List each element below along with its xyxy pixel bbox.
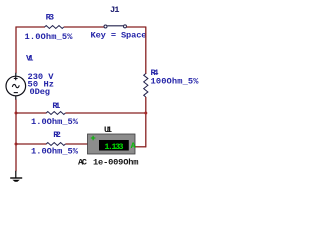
svg-text:1.0Ohm_5%: 1.0Ohm_5% xyxy=(31,117,79,127)
junction node left R1 xyxy=(15,112,18,115)
svg-text:A: A xyxy=(131,142,136,151)
junction node left R2 xyxy=(15,143,18,146)
label U1 xyxy=(104,125,112,135)
label V1 xyxy=(26,53,34,63)
svg-text:Key = Space: Key = Space xyxy=(91,31,147,41)
label J1 xyxy=(110,5,120,15)
resistor R1 xyxy=(46,112,65,115)
label Key = Space xyxy=(91,31,147,41)
svg-text:R3: R3 xyxy=(46,12,55,22)
wire meter to right vertical xyxy=(135,146,146,148)
svg-text:V1: V1 xyxy=(26,53,34,63)
label R1 xyxy=(52,101,60,111)
label AC xyxy=(78,157,87,167)
label 1e-009Ohm xyxy=(93,157,139,167)
wire R2 to meter xyxy=(65,143,88,145)
svg-text:R2: R2 xyxy=(53,130,61,140)
source V1 xyxy=(6,73,26,100)
wire J1 to top-right corner xyxy=(127,26,146,28)
svg-text:100Ohm_5%: 100Ohm_5% xyxy=(151,77,200,87)
ammeter U1 xyxy=(88,134,136,154)
wire R3 to J1 xyxy=(64,26,104,28)
value 0Deg xyxy=(30,87,51,97)
svg-text:1.133: 1.133 xyxy=(104,142,123,152)
value 100Ohm_5% (R4) xyxy=(151,77,200,87)
svg-text:J1: J1 xyxy=(110,5,120,15)
wire right vertical lower xyxy=(145,97,147,147)
resistor R3 xyxy=(45,26,64,29)
junction node right R1 xyxy=(144,112,147,115)
wire R1 right segment xyxy=(65,112,146,114)
svg-text:1.0Ohm_5%: 1.0Ohm_5% xyxy=(31,146,79,156)
ground xyxy=(10,171,22,182)
value 1.0Ohm_5% (R1) xyxy=(31,117,79,127)
resistor R2 xyxy=(46,143,65,146)
svg-text:R1: R1 xyxy=(52,101,60,111)
wire R2 left segment xyxy=(16,143,47,145)
label R2 xyxy=(53,130,61,140)
svg-text:1e-009Ohm: 1e-009Ohm xyxy=(93,157,139,167)
wire right vertical upper xyxy=(145,27,147,75)
resistor R4 xyxy=(144,74,148,97)
label R4 xyxy=(151,68,159,78)
value 230 V xyxy=(28,72,55,82)
svg-text:0Deg: 0Deg xyxy=(30,87,51,97)
switch J1 xyxy=(104,25,127,28)
label R3 xyxy=(46,12,55,22)
wire left vertical upper xyxy=(15,27,17,74)
wire R1 left segment xyxy=(16,112,47,114)
svg-text:U1: U1 xyxy=(104,125,112,135)
svg-text:1.0Ohm_5%: 1.0Ohm_5% xyxy=(25,32,74,42)
svg-text:AC: AC xyxy=(78,157,87,167)
value 50 Hz xyxy=(28,80,55,90)
wire left vertical lower xyxy=(15,99,17,171)
value 1.0Ohm_5% (R3) xyxy=(25,32,74,42)
value 1.0Ohm_5% (R2) xyxy=(31,146,79,156)
wire top left horizontal xyxy=(16,26,46,28)
